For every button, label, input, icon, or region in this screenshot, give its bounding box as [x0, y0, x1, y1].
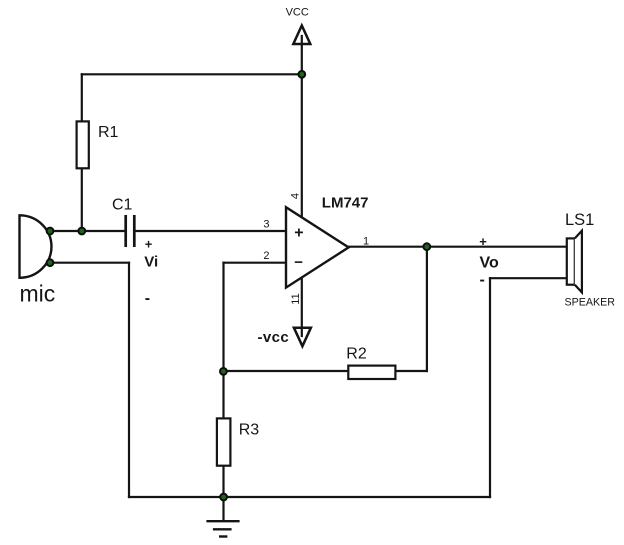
wire speaker- horizontal — [490, 277, 567, 279]
svg-text:Vo: Vo — [480, 254, 499, 271]
svg-text:SPEAKER: SPEAKER — [565, 296, 616, 308]
svg-text:2: 2 — [263, 250, 269, 262]
wire speaker- vertical to bottom rail — [489, 278, 491, 497]
svg-text:LS1: LS1 — [565, 211, 594, 229]
svg-text:1: 1 — [363, 235, 369, 247]
wire op-amp pin 11 to -vcc arrow — [301, 277, 303, 336]
speaker LS1 horn — [575, 231, 582, 293]
wire R3 top lead — [222, 371, 224, 418]
wire R1 top lead — [81, 74, 83, 121]
svg-text:-: - — [480, 271, 485, 288]
svg-text:C1: C1 — [112, 196, 133, 213]
capacitor C1 plates — [126, 215, 135, 247]
junction node VCC — [298, 71, 305, 78]
svg-text:VCC: VCC — [286, 7, 309, 19]
junction node feedback — [220, 368, 227, 375]
speaker LS1 body — [567, 238, 575, 284]
wire mic+ to C1 — [50, 230, 125, 232]
junction node output — [423, 243, 430, 250]
wire feedback node to R2 — [224, 370, 349, 372]
ground symbol — [206, 521, 239, 536]
-VCC power arrow — [294, 328, 311, 347]
wire R3 bottom lead — [222, 466, 224, 498]
svg-text:−: − — [294, 254, 303, 271]
wire mic- vertical to bottom rail — [128, 263, 130, 497]
wire C1 to op-amp pin 3 — [135, 230, 286, 232]
wire R1 bottom lead — [81, 168, 83, 231]
wire mic- horizontal — [50, 262, 129, 264]
junction node mic+ — [47, 228, 54, 235]
wire VCC vertical (arrow to op-amp pin 4) — [301, 36, 303, 218]
svg-text:mic: mic — [20, 281, 56, 307]
svg-text:+: + — [479, 234, 487, 249]
svg-text:+: + — [145, 237, 153, 252]
svg-text:11: 11 — [290, 293, 302, 304]
wire bottom rail — [129, 496, 490, 498]
svg-text:-vcc: -vcc — [258, 329, 290, 346]
resistor R3 body — [217, 418, 231, 465]
wire feedback vertical to output node — [426, 247, 428, 371]
wire output (pin 1) to speaker — [349, 246, 567, 248]
VCC power arrow — [293, 26, 310, 45]
wire ground stem — [222, 497, 224, 521]
wire top horizontal (R1 top to VCC node) — [82, 73, 302, 75]
svg-text:LM747: LM747 — [322, 194, 369, 211]
svg-text:R2: R2 — [346, 346, 367, 363]
microphone MIC1 body — [20, 215, 52, 277]
svg-text:3: 3 — [263, 219, 269, 231]
op-amp U1 triangle — [286, 207, 349, 287]
junction node R1/C1 — [78, 228, 85, 235]
wire R2 right lead — [395, 370, 427, 372]
junction node ground — [220, 494, 227, 501]
svg-text:Vi: Vi — [144, 254, 158, 271]
resistor R2 body — [348, 366, 395, 379]
svg-text:R3: R3 — [239, 421, 260, 438]
wire pin 2 vertical to feedback node — [222, 263, 224, 372]
svg-text:R1: R1 — [98, 124, 119, 141]
svg-text:-: - — [145, 290, 150, 307]
wire pin 2 horizontal — [224, 262, 287, 264]
junction node mic- — [47, 259, 54, 266]
resistor R1 body — [77, 121, 89, 168]
svg-text:4: 4 — [289, 193, 301, 199]
svg-text:+: + — [294, 224, 303, 241]
